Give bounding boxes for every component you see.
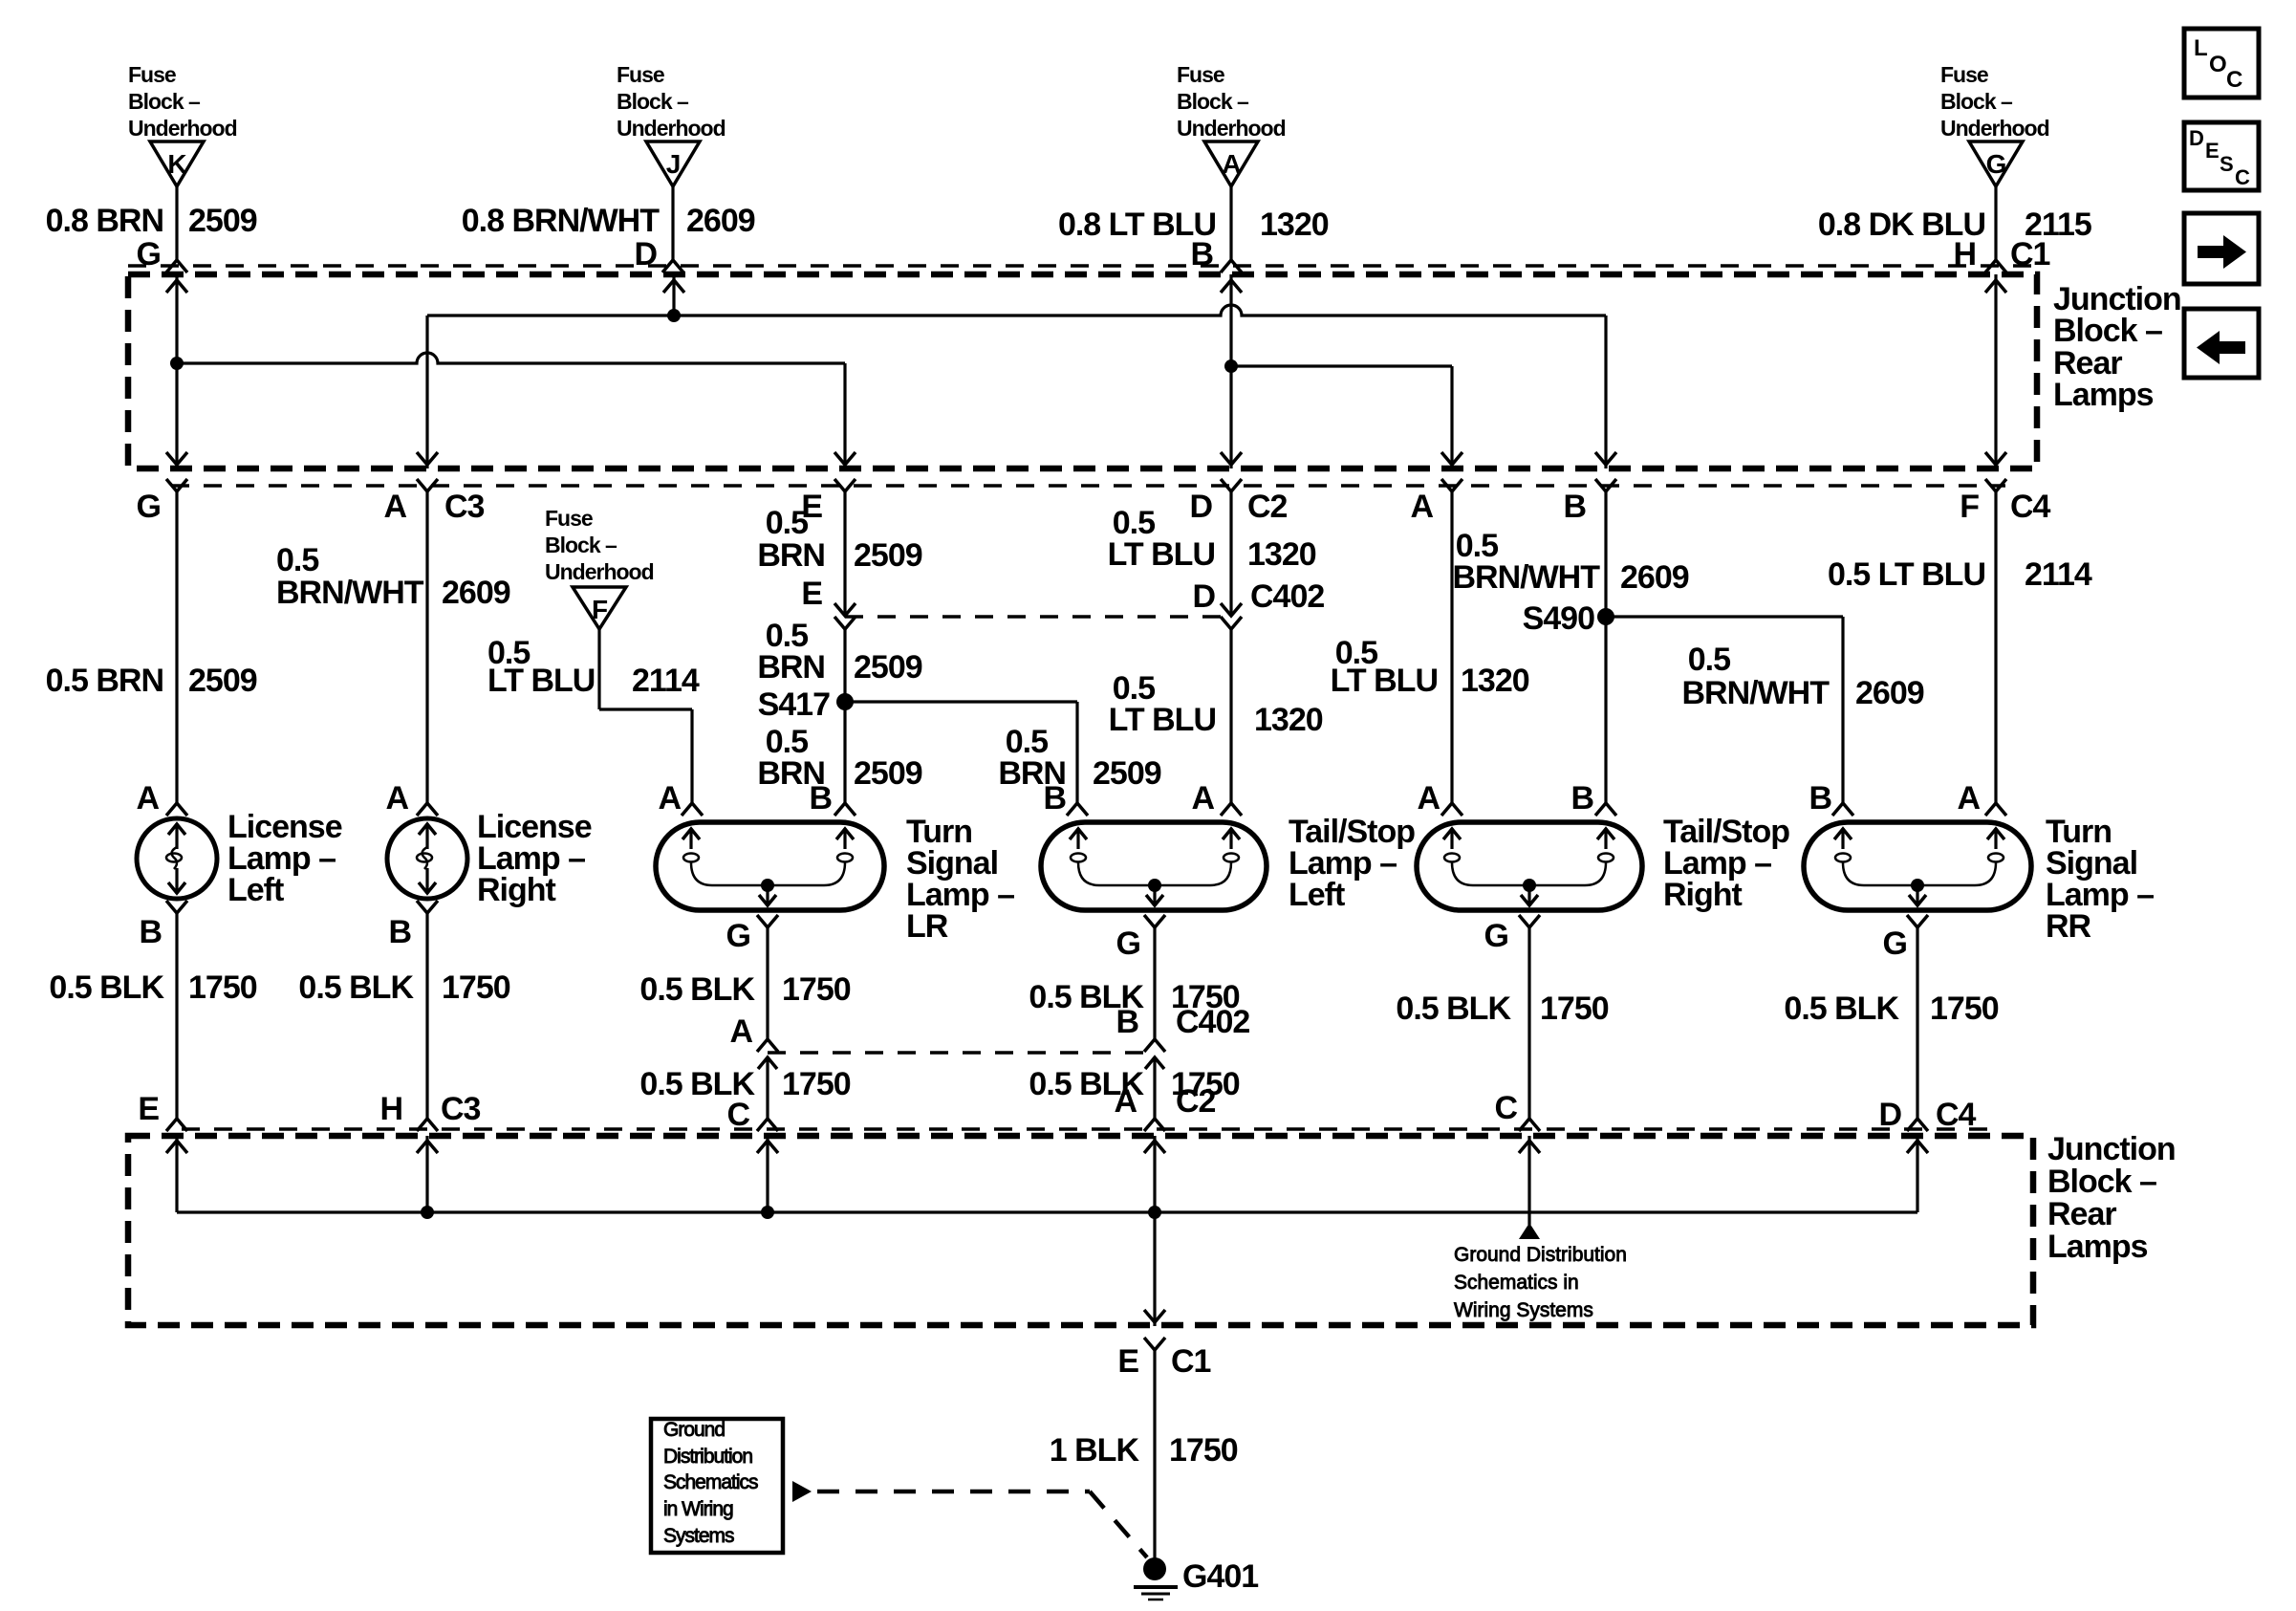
svg-text:2509: 2509 [854, 537, 922, 574]
svg-text:D: D [1189, 489, 1212, 525]
svg-text:0.5: 0.5 [276, 542, 318, 578]
svg-text:L: L [2194, 35, 2207, 61]
svg-text:S417: S417 [758, 686, 830, 723]
svg-text:A: A [1114, 1083, 1137, 1120]
svg-text:G401: G401 [1182, 1558, 1258, 1595]
svg-text:1320: 1320 [1247, 536, 1316, 573]
svg-text:J: J [666, 149, 681, 179]
svg-text:2509: 2509 [1093, 755, 1161, 792]
svg-text:B: B [1570, 780, 1593, 816]
svg-text:0.5 BLK: 0.5 BLK [639, 971, 755, 1008]
svg-text:Block –: Block – [1177, 89, 1249, 114]
svg-text:2114: 2114 [2025, 556, 2092, 593]
svg-text:2509: 2509 [188, 663, 257, 699]
svg-text:Lamps: Lamps [2047, 1229, 2148, 1265]
svg-text:1750: 1750 [782, 1066, 851, 1102]
svg-text:Systems: Systems [663, 1525, 734, 1547]
svg-text:D: D [1192, 578, 1215, 615]
svg-text:G: G [1986, 149, 2006, 179]
svg-text:Fuse: Fuse [1177, 62, 1224, 87]
svg-text:2609: 2609 [686, 203, 755, 239]
svg-text:A: A [1410, 489, 1433, 525]
svg-text:0.5: 0.5 [766, 505, 808, 541]
svg-text:A: A [1191, 780, 1214, 816]
svg-text:C: C [2226, 67, 2242, 93]
svg-text:G: G [726, 918, 750, 954]
svg-text:Underhood: Underhood [1940, 116, 2049, 141]
svg-text:1320: 1320 [1254, 702, 1323, 738]
svg-text:2509: 2509 [854, 755, 922, 792]
svg-text:Block –: Block – [128, 89, 201, 114]
svg-text:Fuse: Fuse [128, 62, 176, 87]
svg-text:C2: C2 [1247, 489, 1288, 525]
svg-text:K: K [167, 149, 186, 179]
svg-text:1750: 1750 [1930, 991, 1999, 1027]
svg-text:Schematics: Schematics [663, 1471, 758, 1493]
svg-text:Block –: Block – [617, 89, 689, 114]
svg-text:BRN/WHT: BRN/WHT [276, 575, 424, 611]
svg-text:1320: 1320 [1260, 207, 1329, 243]
svg-text:B: B [1116, 1004, 1138, 1040]
svg-text:Ground: Ground [663, 1419, 725, 1441]
svg-text:1 BLK: 1 BLK [1050, 1432, 1140, 1469]
svg-text:B: B [1809, 780, 1831, 816]
svg-text:1750: 1750 [1169, 1432, 1238, 1469]
svg-text:A: A [385, 780, 408, 816]
svg-text:Wiring Systems: Wiring Systems [1454, 1299, 1593, 1321]
svg-text:0.5: 0.5 [1688, 642, 1730, 678]
svg-text:Schematics in: Schematics in [1454, 1272, 1579, 1294]
svg-text:C3: C3 [444, 489, 485, 525]
svg-text:0.5 LT BLU: 0.5 LT BLU [1828, 556, 1985, 593]
svg-text:A: A [383, 489, 406, 525]
svg-text:S: S [2220, 152, 2233, 176]
svg-text:Distribution: Distribution [663, 1446, 752, 1468]
svg-text:E: E [801, 576, 822, 612]
svg-text:1750: 1750 [782, 971, 851, 1008]
svg-text:C: C [1494, 1090, 1517, 1126]
svg-text:C3: C3 [441, 1091, 481, 1127]
svg-text:Underhood: Underhood [128, 116, 237, 141]
svg-text:Right: Right [477, 872, 556, 908]
svg-text:B: B [139, 914, 162, 950]
svg-text:0.5 BRN: 0.5 BRN [46, 663, 163, 699]
svg-text:LT BLU: LT BLU [1331, 663, 1438, 699]
svg-text:BRN: BRN [757, 649, 825, 686]
svg-text:BRN: BRN [757, 537, 825, 574]
svg-text:1320: 1320 [1461, 663, 1529, 699]
svg-text:Left: Left [227, 872, 284, 908]
svg-text:E: E [1117, 1343, 1138, 1380]
svg-text:Block –: Block – [545, 533, 617, 557]
svg-text:in Wiring: in Wiring [663, 1498, 733, 1520]
svg-text:0.5 BLK: 0.5 BLK [298, 969, 414, 1006]
svg-text:A: A [729, 1013, 752, 1050]
svg-text:A: A [1417, 780, 1440, 816]
svg-text:G: G [137, 489, 161, 525]
svg-text:Block –: Block – [2047, 1164, 2156, 1200]
svg-text:B: B [1043, 780, 1066, 816]
svg-text:Junction: Junction [2047, 1131, 2176, 1167]
svg-text:F: F [592, 595, 608, 624]
svg-text:Fuse: Fuse [545, 506, 593, 531]
svg-text:Block –: Block – [2053, 313, 2162, 349]
svg-text:E: E [138, 1091, 159, 1127]
svg-text:2609: 2609 [442, 575, 510, 611]
svg-text:0.5 BLK: 0.5 BLK [1396, 991, 1511, 1027]
svg-text:2509: 2509 [854, 649, 922, 686]
svg-text:LR: LR [906, 908, 948, 945]
svg-text:S490: S490 [1523, 600, 1594, 637]
svg-text:D: D [2189, 126, 2203, 150]
svg-text:B: B [809, 780, 832, 816]
svg-text:LT BLU: LT BLU [1108, 536, 1215, 573]
svg-text:LT BLU: LT BLU [1109, 702, 1216, 738]
svg-text:G: G [1116, 925, 1140, 962]
svg-text:Right: Right [1663, 877, 1743, 913]
svg-text:G: G [1484, 918, 1508, 954]
svg-text:C1: C1 [1171, 1343, 1211, 1380]
svg-text:C2: C2 [1176, 1083, 1216, 1120]
svg-text:RR: RR [2046, 908, 2091, 945]
svg-text:E: E [2205, 139, 2219, 163]
svg-text:Underhood: Underhood [617, 116, 726, 141]
svg-text:C: C [2235, 165, 2250, 189]
svg-text:2609: 2609 [1855, 675, 1924, 711]
svg-text:BRN/WHT: BRN/WHT [1452, 559, 1600, 596]
svg-text:G: G [1883, 925, 1907, 962]
svg-text:0.5 BLK: 0.5 BLK [1784, 991, 1899, 1027]
svg-text:LT BLU: LT BLU [487, 663, 595, 699]
svg-text:Fuse: Fuse [617, 62, 664, 87]
svg-text:Lamps: Lamps [2053, 377, 2154, 413]
svg-text:B: B [1563, 489, 1586, 525]
svg-text:2509: 2509 [188, 203, 257, 239]
svg-text:0.5 BLK: 0.5 BLK [49, 969, 164, 1006]
svg-text:0.8 BRN/WHT: 0.8 BRN/WHT [462, 203, 660, 239]
svg-text:1750: 1750 [442, 969, 510, 1006]
svg-text:1750: 1750 [188, 969, 257, 1006]
svg-text:Ground Distribution: Ground Distribution [1454, 1244, 1627, 1266]
svg-text:F: F [1960, 489, 1979, 525]
svg-text:Left: Left [1289, 877, 1345, 913]
svg-text:Block –: Block – [1940, 89, 2013, 114]
svg-text:Underhood: Underhood [545, 559, 654, 584]
svg-text:O: O [2209, 52, 2226, 77]
svg-text:A: A [1957, 780, 1980, 816]
svg-text:A: A [658, 780, 681, 816]
svg-text:A: A [136, 780, 159, 816]
svg-text:Fuse: Fuse [1940, 62, 1988, 87]
svg-text:B: B [388, 914, 411, 950]
svg-text:2114: 2114 [632, 663, 700, 699]
svg-text:C4: C4 [2010, 489, 2051, 525]
svg-text:C402: C402 [1250, 578, 1324, 615]
svg-text:Underhood: Underhood [1177, 116, 1286, 141]
svg-text:Rear: Rear [2047, 1196, 2116, 1232]
svg-text:C402: C402 [1176, 1004, 1249, 1040]
svg-text:A: A [1222, 149, 1241, 179]
svg-text:1750: 1750 [1540, 991, 1609, 1027]
svg-text:BRN/WHT: BRN/WHT [1681, 675, 1830, 711]
svg-text:2609: 2609 [1620, 559, 1689, 596]
svg-text:H: H [379, 1091, 402, 1127]
svg-text:0.8 BRN: 0.8 BRN [46, 203, 163, 239]
